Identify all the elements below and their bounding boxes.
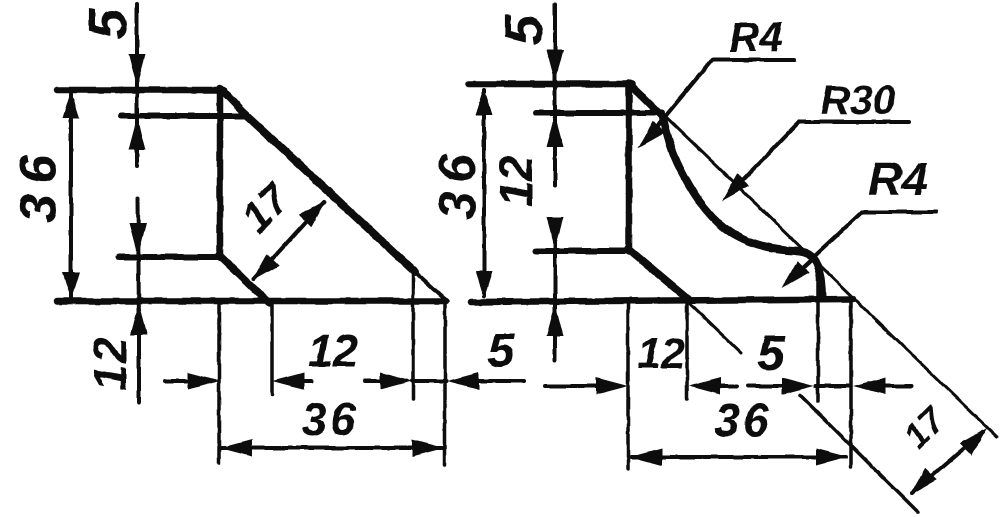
thin chord construction line of 45deg face — [664, 115, 997, 437]
bottom 12/5 dimension line segments — [165, 379, 524, 383]
17 dim arrow up-right — [299, 200, 326, 227]
17 dimension line right figure — [912, 432, 983, 493]
36 dim arrow down — [63, 272, 80, 299]
svg-text:36: 36 — [10, 145, 68, 223]
17 dimension line left figure — [254, 202, 324, 279]
left part second edge (5 below top) — [121, 113, 247, 119]
R4 top leader arrow — [638, 121, 665, 148]
bottom 36 arrow right — [412, 440, 444, 457]
svg-text:12: 12 — [490, 155, 542, 207]
svg-text:12: 12 — [637, 330, 685, 378]
extension line x628 below right part — [626, 304, 630, 469]
svg-text:5: 5 — [757, 325, 786, 381]
right bottom 36 arrow right — [816, 449, 848, 466]
left part bottom edge — [57, 298, 446, 305]
svg-text:36: 36 — [301, 393, 358, 445]
label 12 right figure vertical — [490, 155, 542, 207]
label 36 right bottom — [714, 394, 771, 446]
arrow up under right second edge — [547, 115, 564, 147]
left part bottom chamfer edge — [219, 255, 269, 303]
extension line x687 below right part — [685, 303, 689, 399]
label 12 right bottom — [637, 330, 685, 378]
arrow right tip x628 — [596, 378, 628, 395]
36 vertical dimension line right — [482, 90, 486, 296]
right part second edge — [536, 110, 662, 116]
extension line x413 below part — [411, 274, 415, 399]
right bottom 36 dimension line — [631, 455, 846, 459]
arrow up under second edge — [129, 118, 146, 150]
right bottom 36 arrow left — [630, 449, 662, 466]
label 17 left figure — [232, 174, 299, 241]
extension line x272 below part — [270, 305, 274, 394]
label 36 right figure — [429, 146, 487, 220]
arrow left tip x447 — [447, 373, 479, 390]
extension line x445 below part — [443, 303, 447, 465]
arrow right tip x814 — [782, 378, 814, 395]
arrow down tip right 5 dim — [547, 50, 564, 82]
R30 leader underline — [799, 120, 909, 124]
label 17 right figure — [895, 398, 954, 457]
right part bottom edge — [471, 299, 853, 302]
tail above 12 down arrow — [138, 198, 139, 333]
left part top edge — [57, 87, 224, 94]
svg-text:R30: R30 — [820, 77, 895, 123]
right part vertical edge — [626, 83, 633, 252]
right part bottom chamfer edge — [628, 249, 689, 300]
label 12 bottom — [308, 326, 358, 377]
arrow down tip of top 5 dim — [129, 54, 146, 86]
arrow down tip at right step edge — [547, 217, 564, 249]
svg-text:5: 5 — [488, 325, 516, 378]
tail of 12 dim below bottom edge — [137, 331, 141, 402]
left part vertical edge — [217, 88, 224, 258]
right part step edge — [536, 248, 631, 254]
thin chamfer extension diagonal — [690, 304, 741, 353]
svg-text:12: 12 — [308, 326, 358, 377]
R4 bottom leader underline — [862, 210, 936, 214]
left part small 5-chamfer edge — [414, 271, 447, 301]
svg-text:12: 12 — [84, 335, 136, 390]
right bottom 12/5 dimension line segments — [545, 384, 911, 388]
label 5 right bottom — [757, 325, 786, 381]
R4 top leader underline — [712, 58, 794, 62]
svg-text:5: 5 — [78, 8, 138, 39]
label R30 — [820, 77, 895, 123]
left part 45deg face edge — [245, 114, 415, 272]
arrow left tip x689 — [689, 378, 721, 395]
label R4 top — [729, 14, 783, 61]
arrow up tip at bottom edge — [131, 303, 148, 335]
bottom 36 arrow left — [220, 440, 252, 457]
R4 bottom leader arrow — [782, 261, 809, 288]
right part R30 concave curve with R4 fillets — [663, 118, 822, 297]
left part step edge — [119, 254, 222, 260]
svg-text:36: 36 — [714, 394, 771, 446]
right 36 arrow down — [476, 271, 493, 298]
svg-text:17: 17 — [232, 174, 299, 241]
svg-text:36: 36 — [429, 146, 487, 220]
svg-text:R4: R4 — [868, 153, 928, 206]
R30 leader arrow — [722, 174, 749, 201]
label 36 bottom — [301, 393, 358, 445]
R30 leader line — [728, 122, 799, 195]
arrow up tip at right bottom edge — [547, 304, 564, 336]
36 vertical dimension line left — [69, 94, 73, 297]
right part top edge — [469, 81, 633, 88]
arrow down tip at step edge — [130, 223, 147, 255]
arrow right tip x412 — [380, 373, 412, 390]
svg-text:5: 5 — [494, 14, 554, 45]
17 dim arrow down-left — [252, 254, 279, 281]
label R4 bottom — [868, 153, 928, 206]
arrow left tip x272 — [272, 373, 304, 390]
label 5 top left — [78, 8, 138, 39]
R4 bottom leader line — [788, 212, 862, 281]
svg-text:R4: R4 — [729, 14, 783, 61]
left part top chamfer edge — [221, 89, 248, 117]
svg-text:17: 17 — [895, 398, 954, 457]
tail of right chain below bottom edge — [553, 219, 557, 360]
extension line x219 below part — [217, 305, 221, 463]
extension line for right top 5 dim — [553, 5, 557, 185]
right 17 arrow up-right — [960, 428, 987, 455]
bottom 36 dimension line — [221, 446, 443, 450]
extension line x818 from curve end — [816, 263, 820, 401]
right 36 arrow up — [476, 88, 493, 115]
arrow right tip x219 — [188, 373, 220, 390]
right part top chamfer edge — [630, 85, 664, 118]
lower 17 extension diagonal — [800, 395, 918, 512]
label 36 left — [10, 145, 68, 223]
arrow left tip x853 — [853, 378, 885, 395]
36 dim arrow up — [63, 91, 80, 118]
label 5 bottom right of left figure — [488, 325, 516, 378]
extension line for top 5 dim — [135, 4, 139, 166]
right 17 arrow down-left — [910, 468, 937, 495]
extension line x851 below right part — [849, 302, 853, 467]
label 12 left lower — [84, 335, 136, 390]
R4 top leader line — [644, 60, 712, 142]
label 5 top right figure — [494, 14, 554, 45]
